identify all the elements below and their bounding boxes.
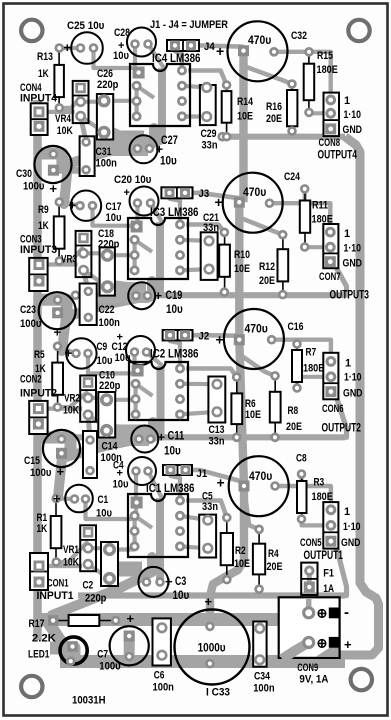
svg-text:470υ: 470υ [248, 33, 271, 47]
svg-text:1: 1 [344, 95, 350, 107]
resistor R11 [300, 184, 310, 252]
svg-text:-: - [344, 604, 349, 621]
svg-text:20E: 20E [259, 275, 275, 287]
wire bottom positive bus [38, 613, 291, 626]
resistor R14 [222, 80, 232, 141]
wire trimmer to 100n ch4 [81, 116, 87, 142]
wire bottom ground bus [60, 655, 345, 668]
wire rin bottom ch2 [58, 392, 89, 408]
svg-text:+: + [216, 332, 224, 348]
op-amp IC1 [128, 494, 188, 557]
wire IC left pins ch4 [135, 86, 139, 117]
resistor R1 [51, 494, 62, 567]
wire R180 bottom to conn ch4 [309, 110, 331, 115]
wire 220p to IC ch3 [107, 253, 134, 257]
wire R180 bottom to conn ch1 [302, 519, 331, 525]
wire R20E bottom stub ch1 [257, 589, 261, 595]
wire output net ch3 [75, 292, 345, 298]
svg-text:100υ: 100υ [30, 467, 51, 479]
svg-text:CON7: CON7 [319, 271, 341, 283]
wire IC pin to 33n bottom ch4 [182, 114, 207, 118]
svg-text:+: + [124, 187, 130, 199]
wire jumper to supply ch2 [185, 333, 239, 338]
wire cap to IC pin ch1 [148, 471, 162, 498]
via output net ch3 [71, 290, 81, 300]
capacitor C27 [130, 135, 158, 163]
svg-text:220p: 220p [85, 593, 107, 605]
LED LED1 [60, 637, 87, 666]
wire C6 pour [156, 625, 167, 657]
wire trimmer to 100n ch2 [88, 415, 90, 440]
capacitor C23 [39, 292, 76, 329]
capacitor C26 [97, 94, 113, 140]
capacitor C3 [138, 567, 168, 597]
svg-text:+: + [155, 288, 163, 303]
capacitor C11 [131, 426, 158, 453]
svg-text:R11: R11 [312, 200, 328, 212]
capacitor C8 [229, 456, 289, 516]
svg-text:GND: GND [343, 388, 363, 400]
svg-text:CON9: CON9 [297, 662, 318, 674]
svg-text:220p: 220p [98, 239, 120, 251]
svg-text:C6: C6 [154, 670, 165, 682]
wire trimmer wiper ch3 [84, 251, 108, 255]
wire R20E bottom stub ch2 [273, 435, 277, 439]
svg-text:C14: C14 [102, 441, 119, 453]
svg-text:OUTPUT3: OUTPUT3 [330, 288, 370, 302]
svg-text:+: + [65, 346, 73, 361]
svg-text:10υ: 10υ [113, 50, 129, 62]
wire supply to R20E ch1 [246, 502, 259, 529]
svg-text:J4: J4 [204, 41, 215, 53]
svg-text:100υ: 100υ [99, 661, 120, 673]
svg-text:33n: 33n [202, 140, 218, 152]
svg-text:C28: C28 [114, 27, 130, 39]
svg-text:R12: R12 [259, 261, 275, 273]
svg-text:I C33: I C33 [206, 687, 230, 699]
svg-text:J3: J3 [199, 188, 210, 200]
wire pad link C30 [53, 167, 79, 174]
wire output net ch1 [78, 592, 345, 598]
svg-text:33n: 33n [202, 501, 218, 513]
svg-text:C23: C23 [20, 304, 36, 316]
capacitor C7 [110, 626, 149, 665]
wire IC ground blob ch3 [108, 284, 142, 299]
svg-text:INPUT2: INPUT2 [20, 388, 57, 400]
resistor R7 [292, 339, 302, 393]
svg-text:+: + [205, 594, 213, 609]
trimmer VR1 [80, 525, 96, 571]
wire trimmer bottom ch3 [84, 270, 104, 284]
svg-text:33n: 33n [209, 436, 225, 448]
svg-text:10υ: 10υ [166, 304, 183, 316]
capacitor C13 [208, 377, 225, 423]
svg-text:+: + [54, 325, 62, 340]
wire supply snake ch3 [62, 281, 152, 351]
wire trimmer bottom ch1 [88, 564, 108, 578]
svg-text:R3: R3 [314, 477, 325, 489]
wire supply chain C16-C8 [239, 340, 244, 486]
svg-text:100n: 100n [253, 683, 275, 695]
connector CON3 [29, 258, 47, 291]
mounting hole bottom-right [351, 669, 372, 690]
wire trimmer wiper ch4 [81, 100, 104, 104]
svg-text:10υ: 10υ [106, 212, 122, 224]
capacitor C1 [65, 485, 93, 513]
svg-text:10υ: 10υ [97, 355, 113, 367]
svg-text:10υ: 10υ [113, 479, 129, 491]
svg-text:10υ: 10υ [164, 446, 181, 458]
capacitor C34 [253, 622, 266, 667]
capacitor C24 [223, 173, 283, 233]
connector CON2 [29, 401, 47, 434]
svg-text:R8: R8 [288, 405, 299, 417]
capacitor C15 [43, 430, 80, 467]
wire cap to IC pin ch4 [148, 44, 164, 68]
wire CON9 entry pour [283, 612, 309, 643]
svg-text:GND: GND [343, 258, 363, 270]
trimmer VR4 [73, 81, 89, 123]
svg-text:⊕: ⊕ [317, 606, 328, 621]
wire rin bottom ch3 [59, 247, 83, 261]
wire IC pin to 33n ch2 [180, 382, 217, 387]
svg-text:R14: R14 [237, 96, 254, 108]
wire IC left pins ch3 [133, 240, 137, 271]
svg-text:+: + [156, 142, 164, 157]
wire R180 bottom to conn ch2 [297, 377, 331, 388]
wire C7 pour [124, 633, 135, 658]
wire input coupling ch2 [88, 352, 135, 373]
capacitor C9 [66, 338, 96, 368]
wire rin bottom ch1 [56, 541, 88, 562]
svg-text:R13: R13 [37, 51, 53, 63]
wire 470u to output conn ch4 [274, 52, 331, 100]
wire pad link C23 [58, 309, 84, 316]
svg-text:C16: C16 [288, 321, 304, 333]
svg-text:10K: 10K [63, 405, 79, 417]
jumper J1 [163, 465, 192, 475]
wire LED1 pour [50, 648, 74, 661]
wire IC out to R ch3 [186, 225, 224, 233]
capacitor C16 [224, 309, 284, 369]
svg-text:180E: 180E [303, 363, 324, 375]
svg-text:+: + [57, 464, 65, 479]
wire input junction ch4 [59, 46, 80, 50]
svg-text:INPUT4: INPUT4 [20, 93, 58, 105]
resistor R15 [304, 47, 315, 117]
svg-text:1K: 1K [37, 523, 48, 535]
svg-text:+: + [64, 40, 72, 55]
capacitor C25 [71, 32, 103, 64]
wire R20E bottom stub ch4 [290, 131, 294, 137]
capacitor C22 [80, 284, 97, 326]
capacitor C18 [100, 247, 115, 295]
svg-text:100n: 100n [96, 158, 118, 170]
capacitor C33 [175, 610, 250, 685]
wire input junction ch1 [56, 496, 74, 501]
wire C34 pour [254, 626, 265, 661]
svg-text:OUTPUT4: OUTPUT4 [318, 147, 358, 161]
op-amp IC3 [128, 218, 188, 279]
wire IC ground blob ch4 [110, 131, 144, 146]
svg-text:10E: 10E [234, 558, 250, 570]
mounting hole top-left [21, 20, 42, 41]
svg-text:33n: 33n [203, 222, 219, 234]
mounting hole top-right [348, 20, 369, 41]
svg-text:R10: R10 [234, 249, 250, 261]
svg-text:1·10: 1·10 [344, 109, 362, 121]
svg-text:+: + [127, 611, 135, 626]
wire F1 to CON9 [307, 571, 312, 613]
svg-text:VR3: VR3 [61, 254, 77, 266]
wire input conn ch4 [39, 110, 75, 114]
svg-text:LED1: LED1 [28, 649, 49, 661]
wire 220p to IC ch4 [104, 99, 137, 103]
svg-text:GND: GND [343, 124, 363, 136]
resistor R4 [253, 525, 265, 594]
wire jumper to supply ch1 [186, 470, 245, 482]
wire supply snake ch4 [64, 128, 154, 204]
svg-text:9V, 1A: 9V, 1A [299, 674, 328, 686]
wire output net ch4 [222, 134, 345, 140]
capacitor C14 [83, 431, 97, 478]
wire supply to R20E ch4 [246, 67, 293, 84]
wire supply pour C23 [38, 300, 67, 313]
wire trimmer to 100n ch3 [84, 270, 89, 291]
wire output net ch2 [60, 434, 345, 440]
wire output gnd stub ch1 [336, 545, 347, 595]
svg-text:+: + [117, 332, 123, 344]
wire jumper to supply ch3 [185, 193, 239, 198]
wire IC pin to 33n bottom ch2 [180, 412, 217, 415]
svg-text:IC2 LM386: IC2 LM386 [150, 347, 199, 361]
svg-text:C24: C24 [284, 171, 301, 183]
resistor R5 [52, 342, 63, 412]
wire input coupling ch1 [86, 471, 137, 519]
svg-text:C32: C32 [291, 30, 307, 42]
resistor R13 [54, 43, 64, 113]
capacitor C4 [128, 457, 156, 485]
svg-text:1·10: 1·10 [343, 521, 361, 533]
wire IC pin2 branch ch4 [137, 86, 154, 98]
svg-text:1: 1 [344, 506, 350, 518]
svg-text:C11: C11 [168, 431, 185, 443]
svg-text:R9: R9 [38, 204, 49, 216]
svg-text:C30: C30 [16, 168, 32, 180]
svg-text:VR2: VR2 [64, 393, 80, 405]
trimmer VR3 [76, 231, 92, 277]
capacitor C17 [71, 191, 101, 221]
svg-text:10E: 10E [234, 263, 250, 275]
wire IC pin to 33n bottom ch1 [180, 546, 208, 548]
wire IC pin2 branch ch3 [135, 240, 152, 252]
wire R180 bottom to conn ch3 [305, 245, 331, 249]
svg-text:220p: 220p [97, 79, 119, 91]
resistor R16 [287, 79, 297, 136]
resistor R17 [48, 615, 121, 626]
wire CON9 ring pour [285, 604, 326, 652]
wire jumper to supply ch4 [191, 46, 244, 47]
svg-text:1K: 1K [38, 68, 49, 80]
capacitor C21 [201, 232, 218, 280]
wire IC pin to 33n ch3 [180, 240, 209, 241]
wire 470u to output conn ch2 [272, 340, 331, 362]
svg-text:R2: R2 [235, 545, 246, 557]
wire IC ground blob ch1 [108, 562, 142, 577]
wire 470u to output conn ch1 [275, 486, 331, 510]
svg-text:C13: C13 [209, 424, 225, 436]
wire R17 to bus [116, 620, 128, 621]
svg-text:+: + [158, 430, 166, 445]
wire input conn ch3 [39, 262, 78, 266]
connector CON4 [31, 103, 48, 135]
capacitor C31 [80, 136, 95, 176]
wire R180 top stub ch2 [295, 340, 299, 344]
svg-text:10E: 10E [237, 111, 253, 123]
svg-text:+: + [215, 194, 223, 210]
svg-text:20E: 20E [266, 113, 282, 125]
svg-text:180E: 180E [317, 64, 338, 76]
resistor R9 [54, 197, 65, 266]
svg-text:R15: R15 [317, 50, 333, 62]
svg-text:+: + [69, 198, 77, 213]
svg-text:+: + [344, 637, 352, 652]
svg-text:IC1 LM386: IC1 LM386 [146, 481, 195, 495]
wire supply pour C15 [38, 438, 71, 454]
capacitor C30 [34, 146, 71, 183]
capacitor C10 [98, 392, 115, 438]
svg-text:10υ: 10υ [115, 352, 131, 364]
wire trimmer bottom ch2 [88, 415, 108, 429]
wire input conn ch2 [38, 407, 82, 411]
connector CON9 [279, 597, 341, 659]
wire trimmer bottom ch4 [81, 116, 101, 130]
svg-text:C2: C2 [83, 580, 94, 592]
svg-text:R5: R5 [34, 349, 45, 361]
svg-text:100n: 100n [99, 317, 121, 329]
svg-text:C19: C19 [166, 290, 183, 302]
op-amp IC4 [130, 64, 190, 126]
svg-text:1K: 1K [38, 220, 49, 232]
svg-text:C8: C8 [296, 453, 307, 465]
svg-text:1: 1 [344, 228, 350, 240]
svg-text:1A: 1A [323, 583, 334, 595]
svg-text:+: + [216, 43, 224, 59]
connector CON7 [323, 224, 338, 268]
wire supply pour C30 [38, 154, 63, 171]
svg-text:IC4 LM386: IC4 LM386 [152, 51, 201, 65]
wire input coupling ch4 [94, 44, 136, 68]
svg-text:R16: R16 [266, 101, 282, 113]
wire decoupling pour ch3 [98, 280, 146, 303]
capacitor C6 [153, 618, 171, 665]
wire 470u to output conn ch3 [270, 203, 331, 232]
svg-text:J2: J2 [199, 331, 210, 343]
svg-text:CON1: CON1 [47, 578, 69, 590]
svg-text:100υ: 100υ [23, 181, 44, 193]
connector CON8 [324, 93, 340, 137]
wire pad link C15 [62, 450, 88, 457]
wire input junction ch2 [58, 346, 77, 353]
wire IC center ch2 [151, 366, 161, 440]
svg-text:C1: C1 [98, 494, 109, 506]
svg-text:VR1: VR1 [63, 544, 79, 556]
capacitor C12 [126, 336, 155, 365]
svg-text:10E: 10E [245, 409, 261, 421]
svg-text:J1: J1 [197, 468, 208, 480]
svg-text:⊕: ⊕ [317, 636, 328, 651]
wire IC center ch4 [150, 68, 163, 149]
svg-text:C3: C3 [175, 576, 186, 588]
svg-text:J1 - J4 = JUMPER: J1 - J4 = JUMPER [150, 19, 228, 31]
svg-text:10K: 10K [57, 125, 73, 137]
svg-text:100υ: 100υ [20, 318, 41, 330]
wire R180 top stub ch4 [307, 50, 311, 54]
wire cap to IC pin ch3 [151, 203, 163, 222]
jumper J3 [161, 187, 192, 198]
svg-text:180E: 180E [312, 214, 333, 226]
connector CON1 [30, 553, 48, 590]
svg-text:VR4: VR4 [55, 113, 72, 125]
svg-text:C31: C31 [96, 146, 112, 158]
svg-text:F1: F1 [323, 568, 334, 580]
jumper J2 [163, 330, 193, 340]
wire decoupling pour ch2 [98, 424, 149, 446]
wire R17 left stub [39, 618, 53, 623]
wire decoupling pour ch4 [95, 125, 148, 156]
resistor R2 [221, 513, 233, 585]
svg-text:C25 10υ: C25 10υ [67, 20, 104, 32]
wire supply snake ch1 [52, 557, 152, 615]
svg-text:180E: 180E [312, 491, 333, 503]
resistor R6 [231, 372, 242, 442]
svg-text:470υ: 470υ [249, 469, 272, 483]
jumper J4 [167, 40, 199, 51]
wire CON9 minus pour [309, 608, 330, 617]
svg-text:220p: 220p [99, 380, 121, 392]
capacitor C29 [200, 82, 216, 125]
svg-text:IC3 LM386: IC3 LM386 [150, 205, 199, 219]
wire supply snake ch2 [58, 422, 153, 497]
wire input conn ch1 [39, 564, 82, 568]
svg-text:INPUT3: INPUT3 [20, 244, 57, 256]
capacitor C20 [130, 187, 159, 216]
svg-text:1·10: 1·10 [344, 243, 362, 255]
svg-text:10υ: 10υ [173, 590, 190, 602]
svg-text:C9: C9 [97, 341, 108, 353]
svg-text:GND: GND [341, 537, 361, 549]
svg-text:C34: C34 [254, 671, 271, 683]
wire IC left pins ch1 [133, 516, 137, 547]
wire input junction ch3 [59, 202, 80, 206]
wire input coupling ch3 [93, 203, 138, 226]
wire IC pin2 branch ch1 [135, 516, 152, 528]
svg-text:20E: 20E [286, 421, 302, 433]
wire supply chain C24-C16 [235, 202, 243, 340]
svg-text:+: + [165, 574, 173, 589]
wire supply chain C32-C24 [239, 51, 247, 203]
wire IC out to R ch2 [186, 369, 237, 378]
wire IC pin2 branch ch2 [136, 384, 153, 396]
svg-text:OUTPUT1: OUTPUT1 [304, 548, 344, 562]
svg-text:10031H: 10031H [72, 695, 106, 707]
wire 220p to IC ch2 [107, 398, 136, 402]
wire output gnd stub ch2 [336, 396, 347, 438]
wire supply to R20E ch2 [241, 356, 275, 376]
wire 220p to IC ch1 [110, 547, 135, 551]
wire right ground bus [340, 137, 379, 655]
wire trimmer wiper ch2 [88, 396, 107, 400]
